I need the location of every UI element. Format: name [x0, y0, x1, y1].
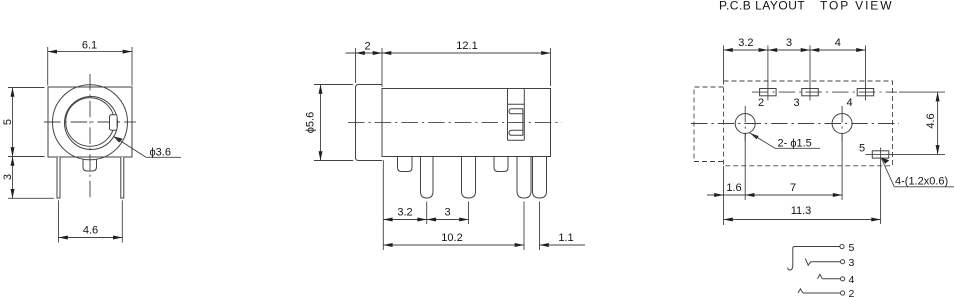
- pcb body dashed outline: [724, 81, 893, 166]
- svg-text:ϕ3.6: ϕ3.6: [150, 147, 171, 159]
- svg-text:3: 3: [786, 37, 792, 49]
- hole2 extension line: [841, 134, 843, 200]
- dim 4.6: [59, 200, 123, 242]
- pin 5 (long): [517, 157, 531, 198]
- svg-text:2: 2: [849, 288, 855, 297]
- svg-text:3: 3: [793, 97, 799, 109]
- mounting hole 2: [832, 114, 852, 134]
- svg-text:4.6: 4.6: [83, 225, 98, 237]
- dim 3.2 (pcb): [724, 37, 768, 81]
- hole1 extension line: [744, 134, 746, 200]
- switch contact spring web: [522, 109, 524, 136]
- dim phi5.6: [305, 85, 354, 161]
- pcb left extension line: [723, 166, 725, 225]
- dim 3 (side): [427, 207, 469, 222]
- terminal 2 circle: [841, 291, 845, 295]
- dim 3 (leg length): [2, 157, 54, 199]
- svg-text:3: 3: [444, 207, 450, 219]
- dim 4.6: [891, 92, 945, 154]
- terminal 2 wire: [803, 292, 840, 294]
- terminal 4 switch contact: [818, 274, 823, 279]
- front right leg: [121, 157, 124, 198]
- svg-text:4.6: 4.6: [925, 113, 937, 128]
- svg-text:1.1: 1.1: [558, 232, 573, 244]
- dim 3.2 (side): [383, 207, 426, 222]
- svg-text:3.2: 3.2: [397, 207, 412, 219]
- tip contact tab: [110, 115, 118, 130]
- dim 6.1: [48, 39, 132, 85]
- svg-text:4: 4: [849, 274, 855, 286]
- svg-text:11.3: 11.3: [791, 205, 812, 217]
- svg-text:5: 5: [2, 119, 14, 125]
- mounting hole 1: [735, 114, 755, 134]
- switch contact spring upper bar: [509, 109, 523, 114]
- pin 6 (long): [533, 157, 547, 198]
- dim 5: [2, 88, 45, 157]
- terminal 5 wire with plug hook: [788, 247, 841, 271]
- dim 3 (pcb): [768, 37, 810, 52]
- svg-text:5: 5: [849, 242, 855, 254]
- front horizontal centerline: [44, 121, 136, 123]
- dim 1.1: [540, 232, 586, 247]
- pin 3 (long): [462, 157, 476, 198]
- terminal 3 wire: [811, 261, 841, 263]
- svg-text:2: 2: [364, 40, 370, 52]
- switch contact spring lower bar: [509, 130, 523, 135]
- body left extension line: [382, 160, 384, 250]
- svg-text:3.2: 3.2: [738, 37, 753, 49]
- svg-text:4: 4: [835, 37, 841, 49]
- svg-text:P.C.B LAYOUT: P.C.B LAYOUT: [719, 0, 805, 13]
- jack hole circle phi3.6: [66, 98, 115, 147]
- pad 5: [866, 148, 895, 225]
- side body: [382, 89, 551, 157]
- svg-text:3: 3: [849, 257, 855, 269]
- front view body outline: [48, 87, 132, 157]
- pin2 extension line: [426, 202, 428, 225]
- terminal 4 circle: [841, 277, 845, 281]
- pin6 extension line: [539, 202, 541, 251]
- dim 4 (pcb): [810, 37, 866, 52]
- hole 1 vertical centerline: [744, 106, 746, 142]
- bushing outer circle: [53, 85, 128, 160]
- dim 2 (bushing): [346, 40, 383, 87]
- dim 1.6: [707, 182, 745, 197]
- pcb horizontal centerline: [691, 123, 899, 125]
- dim 10.2: [383, 232, 524, 247]
- hole 2 vertical centerline: [841, 106, 843, 142]
- svg-text:10.2: 10.2: [441, 232, 462, 244]
- svg-text:4: 4: [846, 97, 852, 109]
- pcb bushing dashed outline: [694, 87, 724, 162]
- leader 2-phi1.5: [750, 133, 821, 150]
- pin stub 1: [398, 157, 413, 172]
- svg-text:6.1: 6.1: [82, 39, 97, 51]
- pad 2: [760, 46, 777, 101]
- svg-text:7: 7: [790, 182, 796, 194]
- svg-text:1.6: 1.6: [726, 182, 741, 194]
- front left leg: [57, 157, 60, 198]
- pin3 extension line: [468, 202, 470, 225]
- pad 4: [857, 46, 874, 101]
- leader 4-(1.2x0.6): [881, 158, 954, 188]
- dim 12.1: [382, 40, 551, 86]
- terminal 4 wire: [822, 278, 840, 280]
- svg-text:2- ϕ1.5: 2- ϕ1.5: [778, 137, 812, 149]
- svg-text:3: 3: [2, 174, 14, 180]
- bottom locating bump: [83, 159, 97, 171]
- pad 3: [802, 46, 819, 101]
- switch contact channel: [508, 89, 525, 141]
- dim 7: [745, 182, 842, 197]
- terminal 5 circle: [840, 244, 844, 248]
- dim 11.3: [724, 205, 881, 222]
- svg-text:TOP VIEW: TOP VIEW: [820, 0, 893, 13]
- leader phi3.6: [113, 136, 181, 159]
- front vertical centerline: [89, 74, 91, 200]
- svg-text:2: 2: [758, 97, 764, 109]
- contact ring outer circle: [65, 97, 118, 150]
- svg-text:4-(1.2x0.6): 4-(1.2x0.6): [895, 175, 948, 187]
- svg-text:12.1: 12.1: [456, 40, 477, 52]
- side bushing: [356, 85, 383, 161]
- pin 2 (long): [421, 157, 434, 198]
- pin5 extension line: [523, 202, 525, 251]
- terminal 2 switch contact: [798, 289, 803, 293]
- pad row centerline: [752, 91, 897, 93]
- pin stub 4: [494, 157, 508, 172]
- terminal 3 circle: [841, 260, 845, 264]
- terminal 3 switch contact: [805, 259, 810, 266]
- svg-text:ϕ5.6: ϕ5.6: [305, 112, 317, 133]
- svg-text:5: 5: [859, 143, 865, 155]
- side view centerline: [348, 121, 562, 123]
